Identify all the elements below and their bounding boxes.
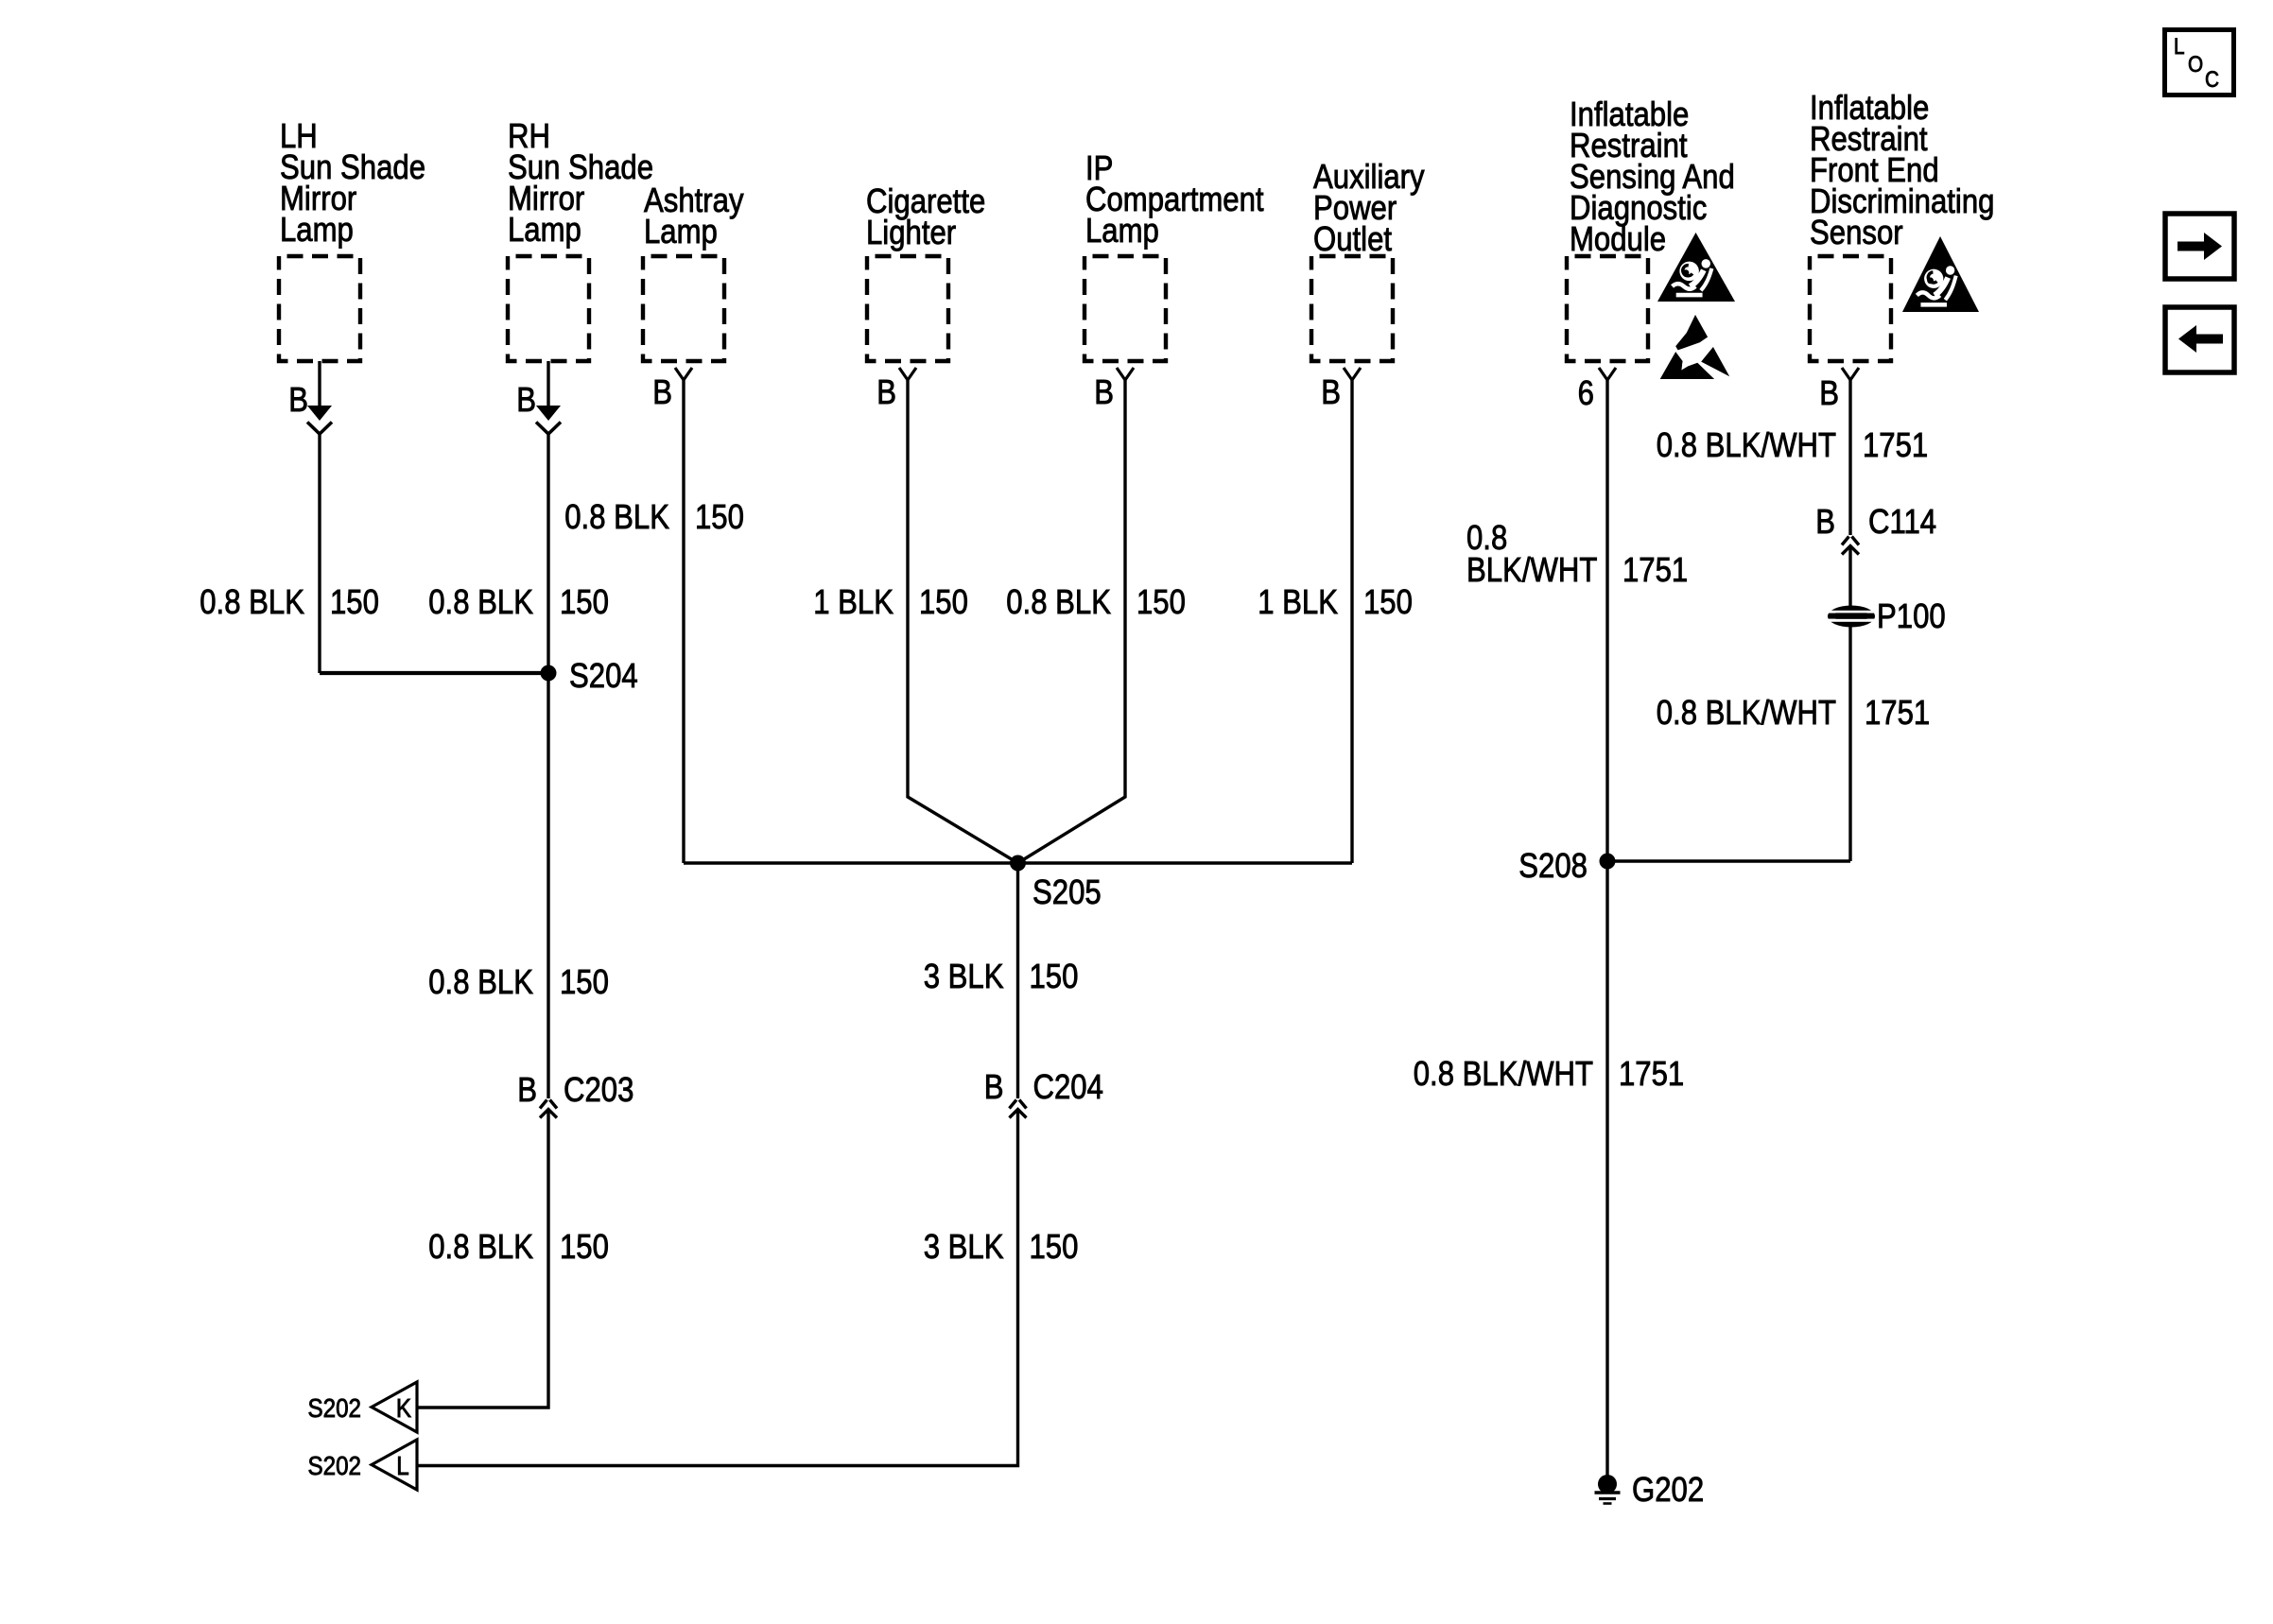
- wire label 0.8 BLK (LH): [200, 584, 304, 622]
- ground G202: [1595, 1475, 1621, 1504]
- svg-text:150: 150: [695, 499, 744, 537]
- component Inflatable Restraint Front End Discriminating Sensor: [1810, 256, 1891, 361]
- circuit 150 (IP): [1136, 584, 1186, 622]
- svg-text:150: 150: [919, 584, 968, 622]
- svg-text:150: 150: [560, 964, 609, 1002]
- connector C204: [1010, 1100, 1027, 1118]
- component Inflatable Restraint Sensing And Diagnostic Module: [1567, 256, 1648, 361]
- svg-text:150: 150: [1136, 584, 1186, 622]
- connector C203: [540, 1100, 557, 1118]
- wire label BLK/WHT (SDM) line2: [1466, 552, 1597, 590]
- node S202 (K) label: [307, 1392, 361, 1423]
- LOC letter C: [2205, 67, 2219, 93]
- svg-text:B: B: [517, 1072, 537, 1110]
- svg-text:Sensor: Sensor: [1810, 215, 1903, 252]
- svg-text:O: O: [2188, 52, 2203, 78]
- svg-text:B: B: [984, 1069, 1004, 1107]
- svg-text:S204: S204: [569, 658, 638, 696]
- wire S208 tie: [1607, 859, 1850, 862]
- junction S205: [1010, 855, 1026, 872]
- svg-text:B: B: [288, 382, 308, 420]
- svg-text:150: 150: [330, 584, 379, 622]
- node S208 label: [1518, 848, 1588, 886]
- pin B C203: [517, 1072, 537, 1110]
- svg-text:G202: G202: [1632, 1472, 1704, 1510]
- pin B IP Compartment Lamp: [1094, 374, 1114, 412]
- connector triangle S202 L: [372, 1440, 417, 1490]
- label IP Compartment Lamp: [1085, 150, 1264, 251]
- svg-text:B: B: [1815, 504, 1835, 542]
- connector C204 label: [1033, 1069, 1103, 1107]
- svg-text:C: C: [2205, 67, 2219, 93]
- pin 6 SDM: [1578, 375, 1594, 413]
- svg-text:1751: 1751: [1622, 552, 1688, 590]
- svg-text:S208: S208: [1518, 848, 1588, 886]
- wire C114 to S208: [1848, 547, 1851, 861]
- pin B RH lamp: [516, 382, 536, 420]
- wire RH lamp stub: [547, 361, 549, 407]
- circuit 150 (C203-S202): [560, 1229, 609, 1267]
- circuit 150 (LH): [330, 584, 379, 622]
- svg-text:Outlet: Outlet: [1313, 221, 1393, 259]
- nav box arrow left: [2165, 307, 2234, 372]
- wire label 0.8 (SDM) line1: [1466, 520, 1507, 558]
- pin B sensor: [1819, 375, 1839, 413]
- wire IP lamp to S205: [1018, 380, 1126, 863]
- connector C203 label: [564, 1072, 633, 1110]
- warning triangle airbag (sensor): [1902, 236, 1979, 312]
- svg-text:S202: S202: [307, 1450, 361, 1480]
- wire label 0.8 BLK/WHT (P100-S208): [1657, 695, 1836, 733]
- circuit 1751 (S208-G202): [1619, 1056, 1684, 1094]
- svg-text:C203: C203: [564, 1072, 633, 1110]
- connector Y IP Compartment pin B: [1117, 368, 1134, 380]
- svg-text:S202: S202: [307, 1392, 361, 1423]
- component Cigarette Lighter: [867, 256, 948, 361]
- component Ashtray Lamp: [643, 256, 724, 361]
- svg-text:BLK/WHT: BLK/WHT: [1466, 552, 1597, 590]
- svg-text:Lamp: Lamp: [280, 212, 354, 250]
- connector Y SDM pin 6: [1599, 368, 1616, 380]
- svg-text:3 BLK: 3 BLK: [924, 1229, 1004, 1267]
- wire label 0.8 BLK (C203-S202): [428, 1229, 533, 1267]
- wire S205 tie: [684, 861, 1352, 864]
- svg-text:C204: C204: [1033, 1069, 1103, 1107]
- svg-text:Lamp: Lamp: [1085, 213, 1159, 251]
- svg-text:0.8 BLK: 0.8 BLK: [564, 499, 669, 537]
- svg-text:B: B: [876, 374, 896, 412]
- label Auxiliary Power Outlet: [1313, 159, 1425, 259]
- node S204 label: [569, 658, 638, 696]
- svg-text:1751: 1751: [1619, 1056, 1684, 1094]
- connector triangle S202 K: [372, 1382, 417, 1432]
- label LH Sun Shade Mirror Lamp: [280, 118, 425, 250]
- connector Y Auxiliary Power pin B: [1344, 368, 1361, 380]
- wire sensor to C114: [1848, 380, 1851, 535]
- component Auxiliary Power Outlet: [1311, 256, 1393, 361]
- svg-text:0.8 BLK/WHT: 0.8 BLK/WHT: [1657, 695, 1836, 733]
- label RH Sun Shade Mirror Lamp: [508, 118, 653, 250]
- wire S204 tie: [320, 671, 548, 675]
- wire label 0.8 BLK (S204-C203): [428, 964, 533, 1002]
- svg-text:Lamp: Lamp: [644, 214, 718, 251]
- svg-text:0.8 BLK: 0.8 BLK: [200, 584, 304, 622]
- connector arrow RH lamp pin B: [536, 406, 561, 434]
- wire label 0.8 BLK/WHT (sensor): [1657, 427, 1836, 465]
- wire S208 to G202: [1605, 861, 1608, 1476]
- svg-text:1751: 1751: [1863, 427, 1928, 465]
- pin K S202: [396, 1392, 412, 1423]
- connector Y sensor pin B: [1842, 368, 1859, 380]
- svg-text:B: B: [652, 374, 672, 412]
- wire label 0.8 BLK/WHT (S208-G202): [1414, 1056, 1593, 1094]
- pin B C204: [984, 1069, 1004, 1107]
- svg-text:150: 150: [560, 584, 609, 622]
- node G202 label: [1632, 1472, 1704, 1510]
- node S205 label: [1032, 874, 1102, 912]
- pin B Cigarette Lighter: [876, 374, 896, 412]
- wire label 3 BLK (S205-C204): [924, 959, 1004, 996]
- grommet P100 label: [1877, 598, 1946, 636]
- connector C114: [1842, 537, 1859, 555]
- circuit 150 (Cigarette): [919, 584, 968, 622]
- svg-text:B: B: [516, 382, 536, 420]
- svg-text:Lamp: Lamp: [508, 212, 581, 250]
- junction S204: [541, 665, 557, 682]
- svg-text:1751: 1751: [1865, 695, 1930, 733]
- nav box LOC: [2165, 30, 2234, 95]
- svg-text:S205: S205: [1032, 874, 1102, 912]
- wire label 1 BLK (Cigarette): [813, 584, 894, 622]
- connector Y Cigarette pin B: [899, 368, 916, 380]
- circuit 1751 (sensor upper): [1863, 427, 1928, 465]
- wire Cigarette to S205: [908, 380, 1018, 863]
- circuit 1751 (P100-S208): [1865, 695, 1930, 733]
- label Ashtray Lamp: [644, 182, 744, 251]
- label Inflatable Restraint Front End Discriminating Sensor: [1810, 90, 1994, 252]
- svg-text:L: L: [396, 1450, 408, 1480]
- pin B Ashtray: [652, 374, 672, 412]
- component LH Sun Shade Mirror Lamp: [279, 256, 360, 361]
- wire C203 to S202 K: [417, 1111, 548, 1408]
- svg-text:C114: C114: [1868, 504, 1936, 542]
- nav box arrow right: [2165, 214, 2234, 279]
- grommet P100: [1825, 606, 1878, 628]
- wire label 0.8 BLK (IP): [1006, 584, 1111, 622]
- svg-text:150: 150: [1363, 584, 1413, 622]
- pin B LH lamp: [288, 382, 308, 420]
- svg-text:B: B: [1094, 374, 1114, 412]
- connector Y Ashtray pin B: [675, 368, 692, 380]
- svg-text:Lighter: Lighter: [866, 215, 956, 252]
- svg-text:6: 6: [1578, 375, 1594, 413]
- svg-text:P100: P100: [1877, 598, 1946, 636]
- svg-text:150: 150: [560, 1229, 609, 1267]
- wire RH lamp to S204: [547, 434, 549, 673]
- label Cigarette Lighter: [866, 183, 985, 252]
- label Inflatable Restraint Sensing And Diagnostic Module: [1570, 96, 1735, 259]
- svg-text:3 BLK: 3 BLK: [924, 959, 1004, 996]
- svg-text:0.8 BLK: 0.8 BLK: [428, 964, 533, 1002]
- wire label 0.8 BLK (RH): [428, 584, 533, 622]
- svg-text:0.8 BLK: 0.8 BLK: [428, 1229, 533, 1267]
- svg-text:150: 150: [1030, 1229, 1079, 1267]
- warning triangle ESD (SDM): [1660, 315, 1730, 379]
- circuit 150 (Ashtray): [695, 499, 744, 537]
- wire Ashtray to S205: [682, 380, 685, 863]
- connector C114 label: [1868, 504, 1936, 542]
- wire S205 to C204: [1016, 863, 1019, 1098]
- svg-text:1 BLK: 1 BLK: [1258, 584, 1338, 622]
- wire C204 to S202 L: [417, 1111, 1018, 1466]
- svg-text:Module: Module: [1570, 221, 1666, 259]
- wire S204 to C203: [547, 673, 549, 1098]
- svg-text:150: 150: [1030, 959, 1079, 996]
- component IP Compartment Lamp: [1084, 256, 1166, 361]
- connector arrow LH lamp pin B: [307, 406, 332, 434]
- circuit 1751 (SDM): [1622, 552, 1688, 590]
- wire SDM to S208: [1605, 380, 1608, 861]
- pin B C114: [1815, 504, 1835, 542]
- svg-text:B: B: [1819, 375, 1839, 413]
- svg-text:0.8 BLK: 0.8 BLK: [428, 584, 533, 622]
- component RH Sun Shade Mirror Lamp: [508, 256, 589, 361]
- LOC letter L: [2174, 34, 2185, 60]
- LOC letter O: [2188, 52, 2203, 78]
- wire Auxiliary outlet to S205: [1350, 380, 1353, 863]
- circuit 150 (C204-S202): [1030, 1229, 1079, 1267]
- svg-text:K: K: [396, 1392, 412, 1423]
- circuit 150 (S204-C203): [560, 964, 609, 1002]
- warning triangle airbag (SDM): [1657, 233, 1735, 302]
- wire LH lamp to S204: [318, 434, 321, 673]
- pin B Auxiliary Power Outlet: [1321, 374, 1341, 412]
- svg-text:0.8 BLK/WHT: 0.8 BLK/WHT: [1657, 427, 1836, 465]
- circuit 150 (Aux): [1363, 584, 1413, 622]
- svg-text:0.8 BLK: 0.8 BLK: [1006, 584, 1111, 622]
- node S202 (L) label: [307, 1450, 361, 1480]
- svg-text:B: B: [1321, 374, 1341, 412]
- svg-text:L: L: [2174, 34, 2185, 60]
- wire label 3 BLK (C204-S202): [924, 1229, 1004, 1267]
- svg-text:0.8 BLK/WHT: 0.8 BLK/WHT: [1414, 1056, 1593, 1094]
- wire label 0.8 BLK (Ashtray): [564, 499, 669, 537]
- circuit 150 (S205-C204): [1030, 959, 1079, 996]
- wire label 1 BLK (Aux): [1258, 584, 1338, 622]
- circuit 150 (RH): [560, 584, 609, 622]
- svg-text:1 BLK: 1 BLK: [813, 584, 894, 622]
- pin L S202: [396, 1450, 408, 1480]
- wire LH lamp stub: [318, 361, 321, 407]
- junction S208: [1600, 854, 1616, 870]
